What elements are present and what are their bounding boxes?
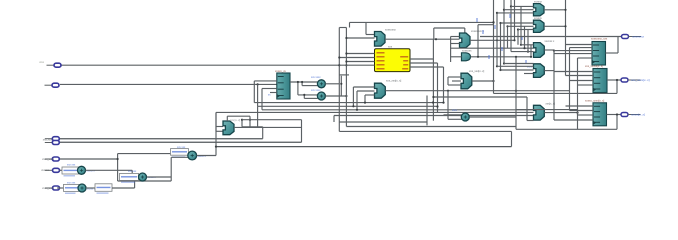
junction M3 in1 bbox=[352, 105, 354, 107]
junction y3 out bbox=[553, 50, 555, 52]
wire ram in2 bbox=[339, 57, 374, 59]
wire speed1 to const bbox=[60, 169, 64, 171]
bus label tick 7 bbox=[521, 36, 523, 40]
ram port text left 2 bbox=[377, 56, 385, 57]
mux cnt Mux21 bbox=[223, 121, 234, 135]
wire Y1 in a bbox=[511, 5, 534, 7]
wire Y5 out bbox=[544, 112, 577, 114]
wire add2 out riser vertical bbox=[134, 180, 136, 189]
wire M2 top box horizontal bbox=[434, 27, 465, 29]
junction M1 out bbox=[435, 38, 437, 40]
wire spine top jog bbox=[339, 27, 346, 29]
wire Y4 in c bbox=[504, 63, 534, 65]
wire bus vertical 7 bbox=[514, 0, 516, 40]
junction ram in1 bbox=[345, 52, 347, 54]
wire box3 bottom bbox=[118, 180, 172, 182]
wire R0 out a bbox=[290, 81, 318, 83]
svg-text:xxxxx_xxxx[x..x]: xxxxx_xxxx[x..x] bbox=[585, 99, 605, 103]
wire M3 in1 bbox=[353, 86, 374, 88]
input port in1 bbox=[47, 63, 62, 67]
wire din b riser vertical bbox=[301, 120, 303, 143]
ram port text left 3 bbox=[377, 60, 385, 61]
junction bus 2 bbox=[503, 9, 505, 11]
bus label tick 8 bbox=[525, 60, 527, 64]
junction bus 7 bbox=[513, 39, 515, 41]
wire riser x427 vertical bbox=[426, 96, 428, 126]
input port in2 bbox=[45, 83, 60, 87]
adder LessThan1 bbox=[78, 184, 86, 192]
constant label Add4 a bbox=[171, 149, 189, 158]
wire R3 in d bbox=[554, 119, 593, 121]
wire M4 in3 bbox=[448, 84, 461, 86]
wire box3 left vertical bbox=[117, 154, 119, 181]
wire dataout long bbox=[480, 36, 622, 38]
wire bus vertical 9 bbox=[520, 6, 522, 44]
wire A6 in2 horizontal bbox=[304, 97, 317, 99]
wire counter out riser vertical bbox=[477, 25, 479, 57]
gate counter D-shape bbox=[462, 53, 471, 61]
wire M2 in stub b bbox=[451, 43, 460, 45]
wire R0 top right stub bbox=[339, 74, 349, 76]
svg-text:xxxx_xxxx: xxxx_xxxx bbox=[42, 158, 55, 161]
wire riser x565 vertical bbox=[565, 0, 567, 76]
wire mux cnt sel top bbox=[227, 115, 250, 117]
wire din a riser vertical bbox=[262, 127, 264, 139]
wire add1 out riser vertical bbox=[131, 170, 133, 175]
wire A6 in2 riser vertical bbox=[303, 95, 305, 99]
svg-text:xxxxxxxx: xxxxxxxx bbox=[385, 29, 396, 32]
bus label tick 4 bbox=[494, 25, 496, 29]
wire bus vertical 4 bbox=[503, 0, 505, 64]
mux Y1 bbox=[534, 4, 545, 16]
wire adder7 in1 bbox=[444, 114, 462, 116]
wire R3 fb riser vertical bbox=[616, 115, 618, 130]
wire add2 out2 bbox=[112, 187, 135, 189]
wire R3 in b bbox=[570, 110, 594, 112]
wire R1 out riser vertical bbox=[617, 37, 619, 54]
wire M3 riser x448 vertical bbox=[447, 91, 449, 120]
constant label add2 b bbox=[95, 184, 112, 194]
wire R2 in d bbox=[578, 84, 594, 86]
input port speed1 bbox=[45, 168, 60, 172]
wire box516 left vertical bbox=[515, 57, 517, 130]
wire R2 in b bbox=[566, 75, 594, 77]
wire y97 horizontal bbox=[434, 96, 527, 98]
wire M3 in2 riser vertical bbox=[356, 91, 358, 110]
junction x516 y56 bbox=[515, 56, 517, 58]
wire fb y109 long bbox=[262, 109, 534, 111]
wire adder7 out bbox=[469, 116, 516, 118]
wire R2 in c bbox=[570, 80, 594, 82]
wire bus vertical 12 bbox=[530, 45, 532, 57]
bus label tick 2 bbox=[482, 30, 484, 34]
wire spine x346 vertical bbox=[345, 28, 347, 127]
adder A6 bbox=[317, 92, 325, 100]
wire fb y106 bbox=[258, 105, 438, 107]
wire M2 top box left vertical bbox=[433, 28, 435, 40]
ram block lpm_ram (yellow) bbox=[375, 49, 411, 72]
wire R0 in b stub bbox=[262, 88, 277, 90]
wire input in2 horizontal bbox=[60, 83, 277, 85]
wire M3 in2 bbox=[357, 90, 375, 92]
junction bus 8 bbox=[520, 44, 522, 46]
svg-text:xxx xxxx: xxx xxxx bbox=[311, 89, 321, 92]
wire Y2 in b bbox=[508, 25, 534, 27]
wire add3 in2 bbox=[135, 179, 139, 181]
junction x433 y97 bbox=[432, 96, 434, 98]
wire Y4 in a bbox=[497, 65, 534, 67]
wire bus vertical 5 bbox=[507, 26, 509, 48]
junction port3 box bbox=[117, 158, 119, 160]
wire fb y115 riser vertical bbox=[333, 116, 335, 123]
wire loop right vertical bbox=[511, 131, 513, 146]
wire M1 in1 bbox=[346, 37, 374, 39]
wire Y3 out bbox=[544, 49, 554, 51]
wire A6 in1 horizontal bbox=[298, 94, 318, 96]
junction ram in3 bbox=[345, 60, 347, 62]
wire ram out riser x443 vertical bbox=[443, 67, 445, 103]
constant label LessThan1 a bbox=[64, 184, 80, 193]
wire ram out riser x437 vertical bbox=[437, 63, 439, 113]
wire mux cnt y119 horizontal bbox=[242, 119, 302, 121]
wire upper loop horizontal bbox=[339, 130, 511, 132]
wire Y2 in c bbox=[518, 29, 534, 31]
wire A5 in2 horizontal bbox=[302, 85, 317, 87]
svg-text:xxxxxxxx_xxx: xxxxxxxx_xxx bbox=[591, 38, 608, 41]
wire ram in4 bbox=[339, 64, 374, 66]
wire fb y112 long bbox=[216, 111, 534, 113]
junction counter out riser bbox=[477, 56, 479, 58]
svg-text:xxx xxx: xxx xxx bbox=[128, 170, 137, 173]
junction M3 in3 bbox=[364, 102, 366, 104]
junction A6 in2 bbox=[303, 94, 305, 96]
junction y2 out bbox=[564, 25, 566, 27]
wire R3 in a bbox=[566, 105, 594, 107]
junction x443 y102 bbox=[442, 102, 444, 104]
wire ram in1 bbox=[346, 53, 374, 55]
wire mux cnt riser vertical bbox=[215, 112, 217, 131]
junction x433 y102 bbox=[432, 101, 434, 103]
wire riser x554 vertical bbox=[553, 50, 555, 120]
wire ram out3 bbox=[410, 66, 444, 68]
junction M1 in1 bbox=[345, 37, 347, 39]
junction bus 10 bbox=[527, 51, 529, 53]
wire R2 fb riser vertical bbox=[616, 80, 618, 93]
svg-text:xxx_xxx[x..x]: xxx_xxx[x..x] bbox=[386, 79, 401, 83]
wire M3 in3 riser vertical bbox=[364, 95, 366, 103]
svg-text:xxx xxx: xxx xxx bbox=[177, 146, 186, 149]
register R1 freqcount bbox=[592, 42, 606, 66]
wire R3 out bbox=[607, 114, 622, 116]
mux Y3 bbox=[534, 43, 545, 58]
wire R1 in b bbox=[570, 47, 593, 49]
wire adder out riser x341 vertical bbox=[340, 76, 342, 96]
wire din a riser2 vertical bbox=[241, 120, 243, 127]
wire feedback mid horizontal bbox=[216, 146, 512, 148]
svg-text:xxx_xxx[x..x]: xxx_xxx[x..x] bbox=[469, 69, 484, 73]
wire box516 bottom bbox=[516, 128, 617, 130]
wire R0 left riser b vertical bbox=[257, 84, 259, 106]
wire add3 out bbox=[147, 176, 172, 178]
wire A5 out bbox=[325, 83, 339, 85]
wire bus vertical 2 bbox=[496, 13, 498, 66]
svg-text:xx: xx bbox=[268, 94, 271, 97]
wire y97 riser x527 vertical bbox=[526, 97, 528, 121]
wire add2 out bbox=[86, 187, 95, 189]
junction in1 spine2 bbox=[345, 64, 347, 66]
wire Y5 sel stub bbox=[527, 120, 534, 122]
wire mux cnt sel vertical bbox=[226, 116, 228, 121]
bus label tick 1 bbox=[476, 18, 478, 22]
svg-text:xxx xxxx: xxx xxxx bbox=[311, 76, 321, 79]
ram port text left 1 bbox=[377, 52, 385, 53]
wire add4 out bbox=[197, 155, 216, 157]
wire top long y21 bbox=[350, 21, 494, 23]
wire M2 top box right vertical bbox=[464, 28, 466, 33]
ram port text right 1 bbox=[400, 56, 408, 57]
junction bus 13 bbox=[499, 69, 501, 71]
wire M1 in0 vertical bbox=[365, 22, 367, 34]
junction M2 out bus bbox=[496, 39, 498, 41]
adder LessThan0 bbox=[78, 166, 86, 174]
wire ram in3 bbox=[346, 61, 374, 63]
svg-text:xxxx: xxxx bbox=[39, 61, 45, 64]
wire mux cnt in2 stub bbox=[216, 130, 223, 132]
wire Y4 in b bbox=[501, 69, 534, 71]
svg-text:xxxx_xxxx: xxxx_xxxx bbox=[42, 187, 55, 190]
bus label tick 5 bbox=[501, 47, 503, 51]
adder Add4 bbox=[188, 151, 197, 160]
junction ram in2 bbox=[338, 56, 340, 58]
wire box3 right vertical bbox=[170, 157, 172, 181]
wire counter top horizontal bbox=[478, 24, 494, 26]
wire R0 left riser a vertical bbox=[253, 81, 255, 103]
mux Y4 bbox=[534, 64, 545, 78]
wire M4 out bbox=[472, 80, 494, 82]
wire Y3 in c bbox=[511, 51, 534, 53]
wire mux cnt sel right vertical bbox=[249, 116, 251, 127]
wire port3 horizontal bbox=[60, 158, 118, 160]
wire add4 in1 long bbox=[118, 153, 188, 155]
wire bus vertical 3 bbox=[500, 23, 502, 70]
wire Y3 in a bbox=[521, 44, 534, 46]
svg-text:xxx xxx: xxx xxx bbox=[67, 181, 76, 184]
svg-text:xxxxx[x..x]: xxxxx[x..x] bbox=[631, 113, 645, 117]
input port timer_long bbox=[45, 186, 60, 190]
junction in1 spine bbox=[338, 64, 340, 66]
svg-text:xxxxx_xx: xxxxx_xx bbox=[275, 70, 287, 73]
wire bus vertical 8 bbox=[517, 30, 519, 45]
svg-text:xxxxxx: xxxxxx bbox=[41, 169, 49, 172]
svg-text:xxxx: xxxx bbox=[452, 109, 458, 112]
input port sec_clk b bbox=[45, 141, 60, 145]
wire R0 left riser c vertical bbox=[261, 89, 263, 110]
junction bus 14 bbox=[503, 62, 505, 64]
junction bus 15 bbox=[492, 21, 494, 23]
wire Y1 in c bbox=[497, 12, 534, 14]
wire M3 in1 riser vertical bbox=[352, 87, 354, 106]
junction add4 riser bbox=[215, 146, 217, 148]
wire fb y122 bbox=[339, 121, 427, 123]
svg-text:xxx_xxxxx[x..x]: xxx_xxxxx[x..x] bbox=[585, 64, 603, 68]
ram port text left 4 bbox=[377, 64, 385, 65]
wire R1 out bbox=[606, 52, 619, 54]
output port usa_watch bbox=[621, 78, 641, 82]
mux M3 bbox=[375, 83, 386, 98]
junction sel y119 bbox=[249, 119, 251, 121]
wire riser x577 vertical bbox=[577, 58, 579, 115]
svg-text:xxxxxxx: xxxxxxx bbox=[462, 50, 472, 53]
wire M2 out bbox=[470, 39, 515, 41]
wire R2 fb horizontal bbox=[494, 92, 618, 94]
junction R0 out riser bbox=[297, 81, 299, 83]
wire bus vertical 11 bbox=[527, 30, 529, 52]
wire mux cnt out bbox=[234, 126, 302, 128]
wire mux cnt in1 stub bbox=[216, 126, 223, 128]
wire Y2 in a bbox=[501, 22, 534, 24]
wire bus din a horizontal bbox=[59, 138, 263, 140]
svg-text:xxx xxx: xxx xxx bbox=[67, 164, 76, 167]
ram port text right 2 bbox=[403, 60, 408, 61]
wire add1 out bbox=[86, 169, 133, 171]
wire M4 in1 bbox=[448, 76, 461, 78]
wire fb y126 bbox=[346, 126, 516, 128]
junction bus 6 bbox=[517, 28, 519, 30]
junction bus 1 bbox=[510, 5, 512, 7]
wire counter out bbox=[471, 56, 532, 58]
wire mux cnt out riser2 vertical bbox=[257, 106, 259, 127]
wire R2 out bbox=[607, 79, 622, 81]
output port wash right bbox=[621, 113, 641, 117]
wire ram out1 bbox=[410, 58, 433, 60]
wire y48 long horizontal bbox=[450, 47, 534, 49]
wire M2 riser vertical bbox=[450, 37, 452, 63]
junction bus 11 bbox=[530, 56, 532, 58]
adder mid Add3 bbox=[139, 173, 147, 181]
wire Y1 in b bbox=[504, 9, 534, 11]
wire M1 in0 bbox=[366, 34, 375, 36]
wire M3 out bbox=[385, 90, 569, 92]
junction R2 out fb bbox=[616, 79, 618, 81]
junction in2 riser tap bbox=[257, 83, 259, 85]
junction bus 5 bbox=[506, 25, 508, 27]
wire M2 in stub a bbox=[451, 36, 460, 38]
register R0 lpm_ff bbox=[277, 73, 290, 99]
wire fb y115 long bbox=[334, 115, 534, 117]
ram port text right 4 bbox=[402, 68, 408, 69]
junction M3 out x516 bbox=[515, 90, 517, 92]
wire input in1 horizontal bbox=[61, 64, 339, 66]
svg-text:xxxxxxxx: xxxxxxxx bbox=[632, 35, 645, 39]
junction bus 9 bbox=[523, 47, 525, 49]
junction A5 in2 bbox=[301, 81, 303, 83]
svg-text:xxx_xxxx[x..x]: xxx_xxxx[x..x] bbox=[631, 78, 650, 82]
wire M4 in2 bbox=[452, 80, 461, 82]
wire R1 in d bbox=[554, 53, 592, 55]
junction bus 12 bbox=[496, 65, 498, 67]
wire Y2 out bbox=[544, 25, 566, 27]
wire A6 out bbox=[325, 95, 346, 97]
mux M1 Mux21-0 bbox=[375, 32, 386, 47]
mux Y5 bbox=[534, 105, 545, 120]
junction M3 out x448 bbox=[447, 90, 449, 92]
junction M3 in2 bbox=[356, 109, 358, 111]
wire add4 in2 bbox=[171, 156, 188, 158]
junction bus 3 bbox=[496, 12, 498, 14]
wire Y1 out bbox=[544, 9, 566, 11]
bus label tick 3 bbox=[488, 55, 490, 59]
wire adder7 in2 bbox=[448, 118, 462, 120]
wire ram out riser x433 vertical bbox=[432, 40, 434, 121]
wire M3 in3 bbox=[365, 94, 375, 96]
svg-text:xxx [x..x]: xxx [x..x] bbox=[230, 118, 240, 122]
wire box516 right vertical bbox=[577, 110, 579, 130]
input port sec_clk a bbox=[45, 137, 60, 141]
adder A7 bbox=[461, 113, 469, 121]
ram port text left 5 bbox=[377, 68, 385, 69]
junction y5 out x577 bbox=[576, 112, 578, 114]
junction y1 out bbox=[564, 9, 566, 11]
junction R3 out fb bbox=[616, 113, 618, 115]
junction bus 4 bbox=[499, 22, 501, 24]
mux Y2 bbox=[534, 20, 545, 32]
junction x437 y106 bbox=[436, 105, 438, 107]
wire riser x569 vertical bbox=[569, 48, 571, 111]
wire R3 in c bbox=[578, 114, 594, 116]
register R3 wash_right bbox=[593, 103, 607, 126]
wire add4 out riser vertical bbox=[215, 112, 217, 155]
wire din a upper horizontal bbox=[242, 126, 263, 128]
wire bus din b horizontal bbox=[59, 141, 302, 143]
junction A5 out x341 bbox=[340, 83, 342, 85]
ram port text right 3 bbox=[403, 64, 408, 65]
wire x349 top vertical bbox=[349, 22, 351, 27]
svg-text:xxx_xxx: xxx_xxx bbox=[43, 139, 53, 142]
wire timer to const bbox=[57, 187, 64, 189]
register R2 usa_watch bbox=[593, 69, 607, 93]
wire Y4 out bbox=[544, 70, 554, 72]
wire R1 in c bbox=[554, 50, 592, 52]
wire spine x339 vertical bbox=[338, 28, 340, 132]
mux M4 bbox=[461, 73, 472, 89]
junction y22 bus bbox=[492, 21, 494, 23]
wire bus vertical 1 bbox=[493, 0, 495, 93]
svg-text:xxx: xxx bbox=[388, 46, 393, 49]
wire R0 in a bbox=[254, 80, 276, 82]
wire add3 in1 bbox=[132, 174, 138, 176]
wire Y4 in d bbox=[524, 73, 534, 75]
wire R1 in a bbox=[566, 44, 593, 46]
wire fb y102 bbox=[254, 102, 443, 104]
input port clear_long bbox=[45, 157, 60, 161]
wire box516 top bbox=[516, 109, 578, 111]
svg-text:xxxxxx x: xxxxxx x bbox=[545, 40, 556, 43]
wire A5 in2 riser vertical bbox=[301, 82, 303, 86]
constant label Add3 a bbox=[120, 173, 139, 182]
wire R0 in c stub bbox=[270, 92, 277, 94]
wire M1 out bbox=[385, 38, 460, 40]
wire R0 out riser x297 vertical bbox=[297, 82, 299, 95]
adder A5 bbox=[317, 80, 325, 88]
wire counter in bbox=[451, 56, 462, 58]
wire R1 in e bbox=[578, 57, 593, 59]
junction din a y119 bbox=[241, 119, 243, 121]
junction M4 out bbox=[492, 80, 494, 82]
wire bus vertical 10 bbox=[524, 26, 526, 48]
wire bus vertical 6 bbox=[510, 0, 512, 52]
wire R2 in a bbox=[554, 71, 593, 73]
wire M4 in riser vertical bbox=[447, 77, 449, 85]
